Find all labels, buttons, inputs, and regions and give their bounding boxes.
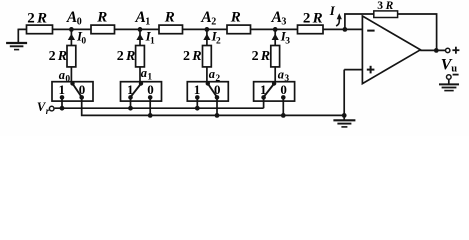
svg-text:1: 1 [127, 82, 134, 97]
svg-text:a: a [278, 67, 284, 81]
svg-text:1: 1 [147, 72, 152, 82]
svg-text:R: R [191, 49, 201, 64]
svg-text:A: A [66, 9, 77, 26]
svg-text:2: 2 [252, 49, 259, 64]
svg-text:0: 0 [147, 82, 154, 97]
svg-text:R: R [230, 10, 241, 26]
svg-text:2: 2 [216, 37, 221, 47]
svg-text:2: 2 [117, 49, 124, 64]
svg-text:A: A [135, 9, 146, 26]
svg-text:3: 3 [377, 0, 383, 12]
svg-text:a: a [209, 67, 215, 81]
svg-text:1: 1 [145, 16, 150, 27]
svg-text:R: R [312, 10, 323, 26]
svg-text:0: 0 [65, 75, 70, 85]
svg-text:2: 2 [49, 49, 56, 64]
svg-text:0: 0 [280, 82, 287, 97]
svg-text:0: 0 [79, 82, 86, 97]
svg-text:2: 2 [215, 74, 220, 84]
svg-text:u: u [451, 64, 457, 75]
svg-text:0: 0 [214, 82, 221, 97]
svg-text:2: 2 [27, 10, 35, 26]
svg-text:0: 0 [81, 37, 86, 47]
svg-text:R: R [260, 49, 270, 64]
svg-text:A: A [271, 9, 282, 26]
svg-text:3: 3 [281, 16, 286, 27]
svg-text:R: R [125, 49, 135, 64]
svg-text:R: R [36, 10, 47, 26]
svg-text:r: r [46, 106, 50, 116]
svg-text:R: R [96, 10, 107, 26]
svg-text:1: 1 [260, 82, 267, 97]
svg-text:3: 3 [285, 37, 290, 47]
svg-text:2: 2 [183, 49, 190, 64]
svg-text:2: 2 [211, 16, 216, 27]
svg-text:a: a [141, 66, 147, 80]
svg-text:2: 2 [303, 10, 311, 26]
svg-text:3: 3 [284, 74, 289, 84]
svg-text:R: R [57, 49, 67, 64]
svg-text:R: R [385, 0, 394, 12]
svg-text:1: 1 [58, 82, 65, 97]
svg-text:1: 1 [150, 37, 155, 47]
svg-text:A: A [200, 9, 211, 26]
svg-text:1: 1 [194, 82, 201, 97]
svg-text:I: I [329, 3, 336, 18]
svg-text:R: R [164, 10, 175, 26]
svg-text:a: a [59, 68, 65, 82]
svg-text:0: 0 [77, 16, 82, 27]
